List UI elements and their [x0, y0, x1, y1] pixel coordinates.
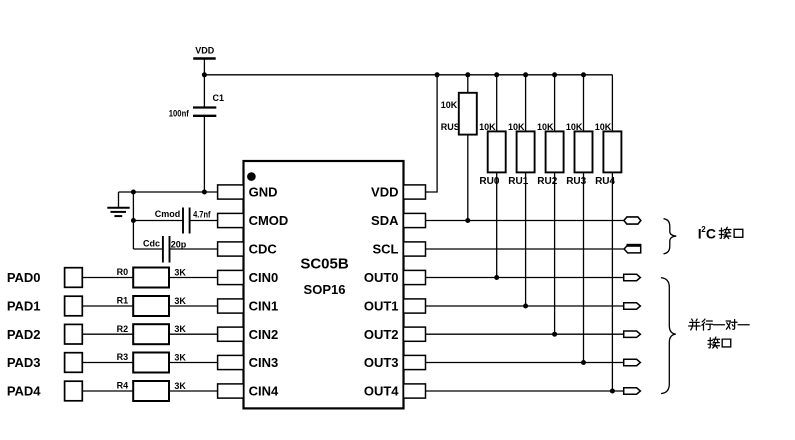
resistor R3 3K [117, 352, 187, 372]
brace parallel one-to-one group [661, 278, 676, 394]
svg-text:20p: 20p [171, 240, 187, 250]
junction VDD rail / RU0 [494, 72, 499, 77]
connector SDA (bidirectional port) [624, 217, 641, 224]
junction OUT0 / RU0 [494, 275, 499, 280]
svg-text:R4: R4 [117, 381, 129, 391]
svg-text:10K: 10K [508, 122, 525, 132]
resistor RU3 10K (pull-up on OUT3) [566, 75, 593, 363]
ground [107, 192, 129, 216]
junction OUT1 / RU1 [523, 304, 528, 309]
wire R0 to CIN0 [169, 277, 218, 279]
svg-text:RU1: RU1 [508, 176, 528, 187]
junction VDD rail / RU3 [581, 72, 586, 77]
svg-text:10K: 10K [566, 122, 583, 132]
wire OUT0 net [426, 277, 624, 279]
junction VDD rail / VDD pin riser [435, 72, 440, 77]
svg-text:Cmod: Cmod [155, 209, 181, 219]
svg-text:4.7nf: 4.7nf [193, 210, 211, 220]
svg-text:RU2: RU2 [537, 176, 557, 187]
svg-text:SOP16: SOP16 [304, 282, 346, 297]
wire SCL net [426, 248, 624, 250]
pin SDA (right pin 15) [371, 213, 425, 228]
svg-text:10K: 10K [595, 122, 612, 132]
connector OUT3 (output port) [624, 359, 641, 365]
wire R3 to CIN3 [169, 362, 218, 364]
svg-text:OUT1: OUT1 [364, 299, 399, 314]
pin CMOD (left pin 2) [218, 213, 289, 228]
power symbol VDD [193, 45, 216, 74]
svg-text:C1: C1 [213, 93, 225, 103]
junction VDD rail / C1 tap [202, 72, 207, 77]
svg-text:R2: R2 [117, 324, 129, 334]
svg-text:SCL: SCL [373, 242, 399, 257]
resistor R1 3K [117, 296, 187, 316]
node PAD2 [7, 324, 82, 344]
junction OUT3 / RU3 [581, 360, 586, 365]
svg-text:RU0: RU0 [479, 176, 499, 187]
svg-text:SC05B: SC05B [300, 255, 349, 272]
connector OUT4 (output port) [624, 388, 641, 394]
pin CDC (left pin 3) [218, 242, 278, 257]
junction VDD rail / RU2 [552, 72, 557, 77]
connector OUT1 (output port) [624, 303, 641, 309]
wire PAD4 to R4 [82, 390, 133, 392]
capacitor Cmod 4.7nf [133, 208, 217, 234]
svg-text:R3: R3 [117, 352, 129, 362]
svg-text:PAD1: PAD1 [7, 299, 41, 314]
resistor R2 3K [117, 324, 187, 344]
svg-text:OUT0: OUT0 [364, 270, 399, 285]
svg-text:3K: 3K [174, 324, 186, 334]
svg-text:OUT2: OUT2 [364, 327, 399, 342]
capacitor Cdc 20p [133, 236, 217, 263]
wire OUT3 net [426, 362, 624, 364]
pin CIN1 (left pin 5) [218, 299, 279, 314]
svg-text:CIN2: CIN2 [249, 327, 279, 342]
svg-text:CDC: CDC [249, 242, 278, 257]
svg-text:SDA: SDA [371, 213, 399, 228]
pin CIN3 (left pin 7) [218, 355, 279, 370]
junction OUT4 / RU4 [610, 389, 615, 394]
node PAD1 [7, 296, 82, 316]
junction VDD rail / RUS [465, 72, 470, 77]
resistor RUS 10K (pull-up on SDA) [441, 75, 477, 221]
wire VDD pin to rail [426, 75, 438, 192]
svg-text:3K: 3K [174, 353, 186, 363]
junction ground branch / Cmod wire [131, 218, 136, 223]
label parallel one-to-one interface (bing-xing-yi-dui-yi jie-kou) [689, 319, 749, 348]
connector OUT0 (output port) [624, 274, 641, 280]
wire OUT1 net [426, 305, 624, 307]
pin OUT4 (right pin 9) [364, 384, 426, 399]
svg-text:OUT4: OUT4 [364, 384, 399, 399]
resistor R4 3K [117, 381, 187, 401]
svg-text:RUS: RUS [441, 122, 460, 132]
svg-text:R0: R0 [117, 267, 129, 277]
wire R1 to CIN1 [169, 305, 218, 307]
pin CIN0 (left pin 4) [218, 270, 279, 285]
connector SCL (input port) [624, 245, 641, 253]
junction SDA / RUS [465, 218, 470, 223]
svg-text:CIN1: CIN1 [249, 299, 279, 314]
junction GND wire / ground branch [131, 190, 136, 195]
svg-text:100nf: 100nf [169, 109, 190, 119]
label I2C interface (I2C jie-kou) [698, 225, 743, 242]
pin CIN2 (left pin 6) [218, 327, 279, 342]
wire PAD1 to R1 [82, 305, 133, 307]
svg-text:Cdc: Cdc [143, 239, 160, 249]
brace I2C group [664, 219, 677, 254]
svg-text:OUT3: OUT3 [364, 355, 399, 370]
svg-text:R1: R1 [117, 296, 129, 306]
pin OUT1 (right pin 12) [364, 299, 426, 314]
svg-text:3K: 3K [174, 268, 186, 278]
svg-text:3K: 3K [174, 381, 186, 391]
wire PAD3 to R3 [82, 362, 133, 364]
node PAD4 [7, 381, 82, 401]
pin GND (left pin 1) [218, 185, 278, 200]
node PAD3 [7, 353, 82, 373]
junction OUT2 / RU2 [552, 332, 557, 337]
wire OUT4 net [426, 390, 624, 392]
svg-text:CMOD: CMOD [249, 213, 289, 228]
connector OUT2 (output port) [624, 331, 641, 337]
pin OUT0 (right pin 13) [364, 270, 426, 285]
svg-text:GND: GND [249, 185, 278, 200]
svg-text:PAD0: PAD0 [7, 270, 41, 285]
svg-text:RU4: RU4 [595, 176, 615, 187]
junction VDD rail / RU1 [523, 72, 528, 77]
svg-text:10K: 10K [537, 122, 554, 132]
IC U1 SC05B SOP16 body [244, 161, 404, 408]
pin CIN4 (left pin 8) [218, 384, 279, 399]
wire R2 to CIN2 [169, 333, 218, 335]
resistor R0 3K [117, 267, 187, 287]
capacitor C1 100nf [169, 75, 224, 192]
wire OUT2 net [426, 333, 624, 335]
svg-text:VDD: VDD [195, 45, 215, 55]
resistor RU1 10K (pull-up on OUT1) [508, 75, 535, 306]
wire SDA net [426, 220, 624, 222]
svg-text:CIN4: CIN4 [249, 384, 279, 399]
wire PAD0 to R0 [82, 277, 133, 279]
node PAD0 [7, 268, 82, 288]
pin SCL (right pin 14) [373, 242, 426, 257]
svg-text:10K: 10K [479, 122, 496, 132]
wire R4 to CIN4 [169, 390, 218, 392]
pin VDD (right pin 16) [371, 185, 425, 200]
wire ground branch vertical (to Cmod/Cdc) [132, 192, 134, 249]
wire GND net (ground to C1 to GND pin) [119, 191, 218, 193]
svg-text:VDD: VDD [371, 185, 398, 200]
pin OUT3 (right pin 10) [364, 355, 426, 370]
svg-text:PAD2: PAD2 [7, 327, 41, 342]
svg-text:CIN3: CIN3 [249, 355, 279, 370]
svg-text:CIN0: CIN0 [249, 270, 279, 285]
svg-text:PAD3: PAD3 [7, 355, 41, 370]
svg-text:RU3: RU3 [566, 176, 586, 187]
pin OUT2 (right pin 11) [364, 327, 426, 342]
resistor RU2 10K (pull-up on OUT2) [537, 75, 564, 334]
junction GND wire / C1 [202, 190, 207, 195]
svg-text:3K: 3K [174, 296, 186, 306]
resistor RU0 10K (pull-up on OUT0) [479, 75, 506, 278]
svg-text:10K: 10K [441, 100, 458, 110]
resistor RU4 10K (pull-up on OUT4) [595, 75, 622, 391]
wire VDD rail [204, 74, 612, 76]
svg-text:C: C [706, 225, 716, 241]
svg-text:PAD4: PAD4 [7, 384, 41, 399]
wire PAD2 to R2 [82, 333, 133, 335]
